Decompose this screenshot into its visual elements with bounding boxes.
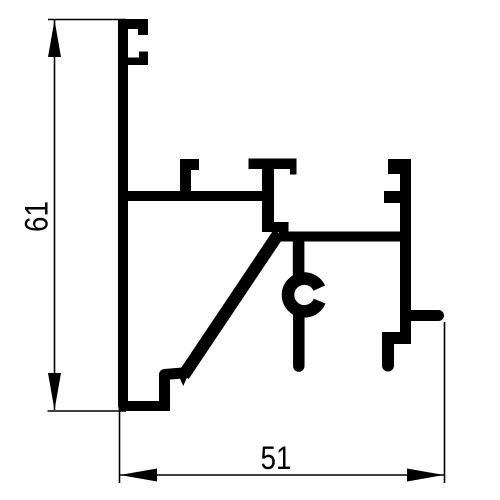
C-clip ring [288, 279, 320, 312]
left T-tab stem [180, 159, 191, 196]
profile left wall and bottom bar [123, 19, 165, 406]
svg-text:61: 61 [19, 201, 55, 232]
right bar left block [382, 332, 411, 344]
right bar mid tab [384, 191, 400, 203]
right bar down tab [382, 338, 394, 366]
dimension extension line bottom-left [48, 410, 127, 412]
center stem [262, 166, 274, 232]
tail below C-clip [293, 314, 305, 366]
center foot [274, 222, 289, 232]
arrow left [120, 469, 157, 482]
left web [123, 191, 263, 201]
center top bar right lip [290, 159, 297, 175]
profile top arm [118, 19, 148, 29]
right bar [400, 159, 411, 344]
dimension extension line top [48, 19, 126, 21]
horizontal dimension line 51 [120, 474, 444, 476]
profile lower arm [128, 58, 148, 66]
left T-tab flag [180, 159, 199, 170]
diagonal brace [184, 233, 280, 376]
profile top arm lip [138, 19, 148, 35]
svg-text:51: 51 [261, 440, 292, 476]
wall top-left chamfer [118, 19, 124, 28]
arrow right [407, 469, 444, 482]
center top bar [249, 159, 297, 170]
diagonal tip point [179, 374, 189, 386]
hanger to C-clip [293, 238, 305, 278]
bottom upturn with bridge [165, 373, 183, 411]
vertical dimension line 61 [54, 20, 56, 410]
extension line right of 51 [444, 322, 446, 483]
arrow down [48, 373, 61, 410]
right bar top bump [388, 159, 400, 174]
right bar foot [406, 310, 439, 321]
profile lower arm lip [139, 52, 148, 66]
right web [279, 232, 411, 242]
arrow up [48, 20, 61, 57]
extension line left of 51 [119, 404, 121, 483]
